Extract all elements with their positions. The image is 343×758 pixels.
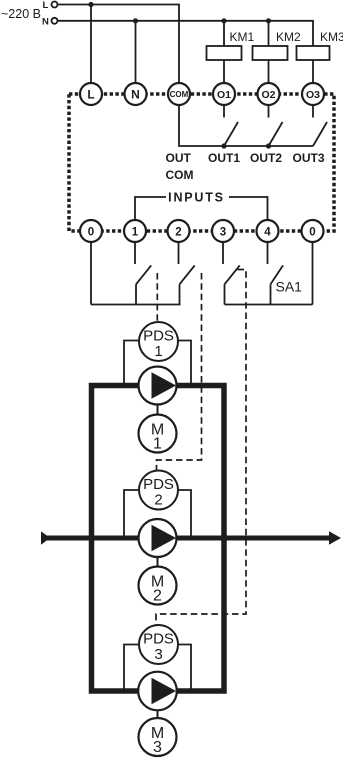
node junction L to controller L: [88, 2, 93, 7]
relay contact O2: stub: [268, 105, 270, 118]
controller dashed enclosure: [69, 94, 334, 231]
pipe outlet arrow: [329, 531, 341, 544]
node O1 blade junction: [221, 143, 226, 148]
svg-text:1: 1: [154, 343, 162, 360]
relay contact O1: blade: [224, 122, 238, 146]
input switch 3: lower lead: [224, 284, 226, 304]
wire KM2 to O2: [268, 60, 270, 83]
relay contact O1: stub: [223, 105, 225, 118]
motor M2: [139, 567, 177, 605]
switch SA1: lower lead: [270, 284, 272, 304]
svg-text:4: 4: [264, 227, 271, 239]
terminal N: [125, 83, 147, 105]
sensor PDS1: [139, 322, 178, 361]
relay contact O2: blade: [269, 122, 283, 146]
bypass loop PDS3: [124, 645, 139, 692]
svg-text:3: 3: [153, 739, 162, 756]
dashed link switch1 to PDS1: [156, 273, 158, 322]
dashed link switch3 to PDS3: [156, 270, 246, 625]
svg-text:SA1: SA1: [276, 279, 303, 295]
svg-text:OUT1: OUT1: [208, 151, 240, 165]
wire drop to KM1 coil: [223, 21, 225, 46]
svg-text:O2: O2: [261, 89, 275, 101]
sensor PDS2: [139, 471, 178, 510]
svg-text:2: 2: [175, 227, 181, 239]
node junction N to controller N: [133, 18, 138, 23]
node junction N to KM2: [266, 18, 271, 23]
connector pump3 to M3: [157, 708, 159, 719]
svg-text:INPUTS: INPUTS: [168, 191, 225, 205]
contactor coil KM1: [207, 46, 242, 60]
node junction N to KM1: [221, 18, 226, 23]
contactor coil KM3: [297, 46, 330, 60]
input switch 1: blade: [136, 265, 151, 284]
input switch 2: stub: [178, 242, 180, 264]
terminal 3: [212, 220, 234, 242]
sensor PDS3: [139, 625, 178, 664]
terminal 2: [168, 220, 190, 242]
relay contact O3: blade: [313, 122, 327, 146]
svg-text:COM: COM: [170, 90, 189, 99]
svg-text:2: 2: [153, 588, 162, 605]
svg-text:3: 3: [220, 227, 226, 239]
terminal O1: [213, 83, 235, 105]
terminal L: [80, 83, 102, 105]
svg-text:L: L: [87, 88, 94, 102]
svg-text:PDS: PDS: [143, 631, 174, 648]
terminal L (open circle): [52, 2, 58, 8]
terminal 0 (right): [302, 220, 324, 242]
wire bus inputs 1-2: [91, 304, 181, 306]
contactor coil KM2: [253, 46, 288, 60]
svg-text:L: L: [43, 0, 49, 11]
svg-text:KM2: KM2: [276, 30, 301, 44]
relay contact bus from COM: [179, 105, 313, 146]
svg-text:O1: O1: [217, 89, 231, 101]
wire KM3 to O3: [312, 60, 314, 83]
relay contact O3: stub: [312, 105, 314, 118]
pipe main line: [46, 536, 331, 541]
pipe inlet arrow: [41, 531, 50, 544]
terminal N (open circle): [52, 18, 58, 24]
svg-text:0: 0: [88, 227, 94, 239]
INPUTS bracket: [135, 197, 166, 220]
svg-text:O3: O3: [306, 89, 320, 101]
terminal 4: [257, 220, 279, 242]
wire L line: [57, 5, 179, 84]
switch SA1: stub: [267, 242, 269, 264]
wire KM1 to O1: [223, 60, 225, 83]
svg-text:0: 0: [309, 227, 315, 239]
input switch 1: lower lead: [135, 284, 137, 304]
pump P1: [139, 367, 177, 405]
svg-text:PDS: PDS: [143, 476, 174, 493]
bypass loop PDS1: [124, 341, 139, 386]
svg-text:1: 1: [153, 436, 162, 453]
svg-text:OUT2: OUT2: [250, 151, 282, 165]
svg-text:OUT: OUT: [166, 151, 192, 165]
svg-text:N: N: [131, 88, 140, 102]
connector pump1 to M1: [157, 404, 159, 415]
wire N line: [57, 21, 313, 46]
bypass loop PDS2: [124, 490, 139, 538]
motor M3: [139, 718, 177, 756]
wire common 0 right down: [312, 242, 314, 305]
wire bus inputs 3-4: [225, 304, 313, 306]
switch SA1: blade: [271, 265, 284, 284]
input switch 3: stub: [222, 242, 224, 264]
terminal O2: [258, 83, 280, 105]
wire L drop to terminal: [90, 5, 92, 84]
svg-text:KM3: KM3: [320, 30, 343, 44]
wire drop to KM2 coil: [268, 21, 270, 46]
svg-text:PDS: PDS: [143, 328, 174, 345]
svg-text:2: 2: [154, 492, 162, 509]
input switch 3: blade: [225, 265, 240, 284]
wire N drop to terminal: [135, 21, 137, 83]
node O2 blade junction: [266, 143, 271, 148]
svg-text:N: N: [42, 16, 49, 27]
input switch 2: lower lead: [179, 284, 181, 304]
terminal 1: [124, 220, 146, 242]
motor M1: [139, 415, 177, 453]
svg-text:~220 В: ~220 В: [1, 7, 41, 21]
pipe manifold loop: [92, 386, 225, 692]
pump P3: [138, 672, 177, 711]
svg-text:1: 1: [132, 227, 139, 239]
connector pump2 to M2: [157, 556, 159, 567]
svg-text:3: 3: [154, 646, 162, 663]
dashed link switch2 to PDS2: [157, 273, 202, 470]
terminal 0 (left): [80, 220, 102, 242]
terminal COM: [168, 83, 190, 105]
input switch 2: blade: [180, 265, 195, 284]
svg-text:KM1: KM1: [230, 30, 255, 44]
pump P2: [139, 519, 177, 557]
terminal O3: [302, 83, 324, 105]
input switch 1: stub: [134, 242, 136, 264]
wire common 0 left down: [90, 242, 92, 305]
svg-text:OUT3: OUT3: [292, 151, 324, 165]
svg-text:COM: COM: [166, 168, 194, 182]
